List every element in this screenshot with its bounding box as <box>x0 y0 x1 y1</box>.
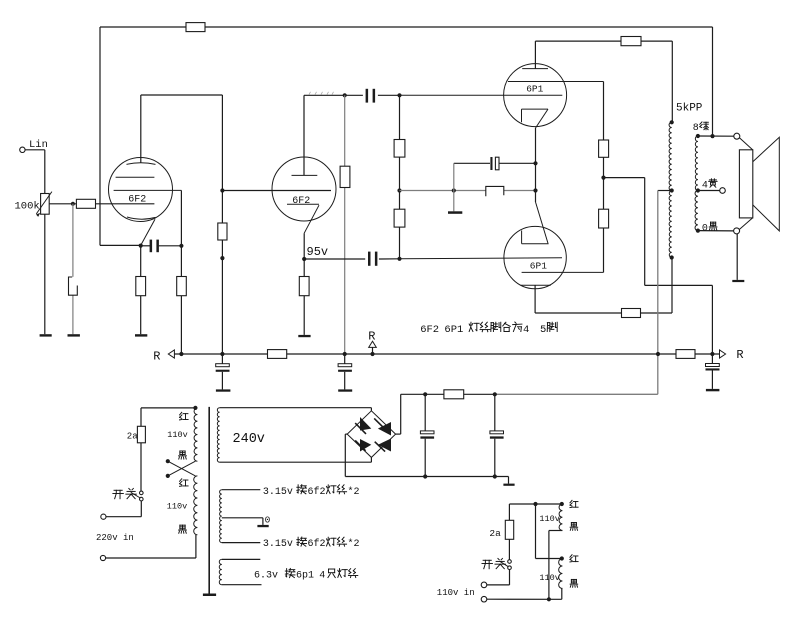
net arrow R left <box>168 350 174 358</box>
node grid junction <box>71 202 75 206</box>
svg-text:6F2: 6F2 <box>292 196 310 207</box>
wire 110 top node <box>509 503 561 505</box>
node bus R-up <box>370 352 374 356</box>
node cathode cap <box>533 161 537 165</box>
winding 110v lower <box>559 559 563 589</box>
svg-text:6f2: 6f2 <box>308 538 326 550</box>
label 4 yellow <box>702 179 717 192</box>
node V2 cathode out <box>302 257 306 261</box>
ground PSU <box>503 484 514 486</box>
label filament note <box>420 322 557 336</box>
wire red-red tie <box>536 504 562 559</box>
fuse 2a right <box>505 520 513 539</box>
ground pot <box>40 334 52 336</box>
OPT secondary winding <box>695 136 698 231</box>
crossover X <box>166 459 196 478</box>
svg-text:Lin: Lin <box>29 139 48 151</box>
label 8 green <box>693 122 709 134</box>
resistor grid shunt <box>69 277 78 295</box>
wire 8ohm tap <box>698 135 734 137</box>
switch contacts <box>140 491 144 501</box>
wire bridge DC minus <box>345 434 347 476</box>
label 95v <box>307 245 329 259</box>
terminal 220v neutral <box>100 555 105 560</box>
label 110v p2 <box>167 502 187 512</box>
label 3.15v upper <box>263 485 360 498</box>
node bus fb-chain <box>179 352 183 356</box>
wire 3.15 bottom lead <box>222 542 260 544</box>
node PT primary top <box>193 406 197 410</box>
svg-text:4: 4 <box>523 324 529 336</box>
wire switch2 down <box>487 570 510 585</box>
svg-text:110v: 110v <box>167 502 187 512</box>
node V1 plate / V2 grid <box>220 188 224 192</box>
winding 110v upper <box>559 504 562 531</box>
resistor R bus right <box>676 350 695 359</box>
svg-text:95v: 95v <box>307 245 329 259</box>
label red 2 <box>180 479 189 487</box>
V2 cathode slant <box>304 205 319 233</box>
resistor cathode bias <box>486 186 504 196</box>
label 110v p1 <box>167 430 187 440</box>
svg-text:6.3v: 6.3v <box>254 570 278 581</box>
resistor screen upper <box>599 140 609 157</box>
wire 240v top lead <box>220 407 372 409</box>
label 5kPP <box>676 102 703 114</box>
wire feedback to cathode <box>100 244 181 246</box>
label red 1 <box>180 412 189 420</box>
wire V1 cathode resistor drop <box>140 246 142 334</box>
V3 screen line <box>508 81 604 83</box>
node bus V2 chain <box>343 352 347 356</box>
wire 3.15 top lead <box>222 489 260 491</box>
wire 110v bottom line <box>487 598 562 600</box>
capacitor coupling upper <box>366 89 376 103</box>
svg-text:2a: 2a <box>127 431 138 441</box>
terminal 0ohm <box>734 228 740 234</box>
node V2 plate <box>343 93 347 97</box>
wire 3.15 center tap <box>222 518 263 525</box>
label Lin <box>29 139 48 151</box>
label black 2 <box>179 525 187 533</box>
PT primary upper <box>194 408 197 461</box>
wire OPT CT stub <box>658 190 672 192</box>
tube V1 6F2 envelope <box>109 158 173 222</box>
terminal 110v hot <box>481 582 487 588</box>
V1 cathode dish <box>127 217 156 219</box>
label V1 6F2 <box>128 195 146 206</box>
wire 6.3 top lead <box>222 558 260 560</box>
wire switch to terminal <box>106 501 141 517</box>
erase marks <box>309 92 334 95</box>
svg-text:6f2: 6f2 <box>308 486 326 498</box>
svg-text:6P1: 6P1 <box>526 84 543 95</box>
net arrow R up <box>369 341 377 354</box>
svg-text:6P1: 6P1 <box>530 261 547 272</box>
label black u <box>570 523 578 531</box>
ground V2 cathode <box>298 335 310 337</box>
PT 6.3v winding <box>219 559 222 584</box>
node bus V1 chain <box>220 352 224 356</box>
label red u <box>570 500 578 507</box>
resistor lower plate <box>622 309 641 318</box>
svg-text:*2: *2 <box>348 538 360 550</box>
net arrow R right <box>720 350 726 358</box>
wire V1 plate load to bus <box>221 240 223 354</box>
node 0V cap2 <box>493 474 497 478</box>
V1 top electrode <box>127 163 156 165</box>
wire bridge DC plus <box>396 394 401 434</box>
node feedback pickup <box>710 134 714 138</box>
node OPT primary CT <box>670 188 674 192</box>
PT primary lower <box>194 476 198 535</box>
node B+ cap2 <box>493 392 497 396</box>
transformer core <box>208 407 210 594</box>
svg-text:5kPP: 5kPP <box>676 102 703 114</box>
wire mains top lead <box>141 408 195 426</box>
svg-text:110v in: 110v in <box>437 588 475 598</box>
resistor R bus left <box>268 350 287 359</box>
wire feedback right drop <box>712 27 714 136</box>
node OPT sec 4ohm <box>696 188 700 192</box>
node OPT primary bottom <box>670 255 674 259</box>
terminal 4ohm <box>720 188 726 194</box>
wire V1 plate stem <box>140 95 142 163</box>
node OPT sec top <box>696 134 700 138</box>
resistor divider upper <box>394 140 405 158</box>
svg-text:6P1: 6P1 <box>444 324 463 336</box>
V3 grid line <box>400 94 563 96</box>
ground filament CT <box>257 525 268 527</box>
ground V1 cathode <box>135 334 147 336</box>
wire common cathode <box>535 128 537 202</box>
tube V2 6F2 envelope <box>272 157 336 221</box>
wire 0V line <box>345 477 508 484</box>
label 2a right <box>489 528 501 539</box>
svg-text:6F2: 6F2 <box>128 195 146 206</box>
wire speaker bottom link <box>739 218 752 230</box>
PT 240v winding <box>217 408 219 463</box>
wire V1 mid drop <box>180 190 182 354</box>
label 110v u <box>539 514 559 524</box>
wire 110 lower black <box>561 589 564 600</box>
svg-text:8: 8 <box>693 123 699 134</box>
svg-text:4: 4 <box>319 570 325 581</box>
label 100k <box>15 201 40 213</box>
wire speaker top link <box>739 138 752 150</box>
node bus B+ <box>656 352 660 356</box>
svg-text:R: R <box>153 349 160 363</box>
wire V2 plate stem <box>303 95 305 175</box>
node screen mid <box>601 176 605 180</box>
capacitor coupling lower <box>368 252 377 266</box>
svg-text:110v: 110v <box>167 430 187 440</box>
switch2 lever <box>500 561 509 567</box>
ground grid shunt <box>68 334 80 336</box>
ground bus cap B <box>338 389 352 391</box>
wire R bus <box>174 353 719 355</box>
label black 1 <box>179 451 187 459</box>
tube V4 6P1 envelope <box>504 226 566 288</box>
terminal 110v neutral <box>481 596 487 602</box>
V2 cathode bar <box>287 203 319 205</box>
label V3 6P1 <box>526 84 543 95</box>
V3 cathode <box>522 109 549 128</box>
potentiometer 100k <box>36 192 52 217</box>
terminal 220v hot <box>101 514 106 519</box>
wire 220v neutral <box>106 535 196 558</box>
node 110 black tie <box>547 597 551 601</box>
label black l <box>570 579 578 587</box>
wire 240v bottom lead <box>220 461 372 463</box>
svg-text:0: 0 <box>702 224 708 235</box>
resistor V2 plate load <box>340 166 350 187</box>
wire top feedback bus <box>100 26 713 28</box>
wire 4ohm tap <box>698 190 720 192</box>
node V1 plate chain dot <box>220 256 224 260</box>
resistor feedback chain <box>177 277 187 296</box>
label V2 6F2 <box>292 196 310 207</box>
svg-text:6p1: 6p1 <box>296 570 314 581</box>
wire fuse to switch <box>140 443 142 491</box>
node OPT primary top <box>670 120 674 124</box>
label switch left <box>113 488 136 498</box>
svg-text:*2: *2 <box>348 486 360 498</box>
V4 screen line <box>522 271 604 273</box>
V4 plate bar <box>521 285 551 313</box>
wire V2 plate route <box>304 94 400 96</box>
wire cathode net mid <box>400 190 536 192</box>
V3 plate bar <box>522 41 548 69</box>
ground R node <box>706 389 720 391</box>
label R left <box>153 349 160 363</box>
label 110v l <box>539 573 559 583</box>
tube V3 6P1 envelope <box>504 64 567 127</box>
wire speaker ground stem <box>736 234 738 280</box>
label V4 6P1 <box>530 261 547 272</box>
capacitor V1 cathode <box>150 240 159 253</box>
wire lower coupling <box>304 258 399 260</box>
node lower divider bottom <box>397 257 401 261</box>
V4 grid line <box>400 258 563 259</box>
bridge diamond <box>347 411 395 458</box>
resistor V1 plate load <box>218 223 227 240</box>
wire lower 6P1 plate to OPT <box>535 312 672 314</box>
wire grid line <box>49 203 154 205</box>
svg-text:6F2: 6F2 <box>420 324 439 336</box>
ground speaker <box>732 280 744 282</box>
node divider mid <box>397 188 401 192</box>
speaker horn <box>753 137 780 231</box>
label 3.15v lower <box>263 537 360 550</box>
capacitor R node <box>706 354 720 389</box>
wire V2 cathode resistor <box>303 259 305 335</box>
wire V1 plate top route <box>141 95 223 223</box>
wire B+ line <box>401 393 658 395</box>
resistor grid series <box>76 199 95 208</box>
svg-text:240v: 240v <box>233 432 265 447</box>
label 110v in <box>437 588 475 598</box>
wire bridge AC bottom <box>370 457 372 462</box>
svg-text:110v: 110v <box>539 573 559 583</box>
wire input <box>25 150 45 194</box>
wire divider chain <box>399 95 401 258</box>
wire bridge AC top <box>370 408 372 411</box>
OPT primary winding <box>669 122 672 257</box>
wire V2 cathode drop <box>303 233 305 259</box>
wire cathode net top <box>454 162 536 164</box>
diode D2 <box>374 418 391 435</box>
wire OPT primary bottom drop <box>671 258 673 314</box>
resistor V1 cathode <box>136 277 146 296</box>
wire fuse2 to switch <box>508 539 510 559</box>
node 110 red upper <box>560 502 564 506</box>
wire 110 fuse branch <box>508 504 510 520</box>
label 0 black <box>702 222 717 234</box>
wire V2 plate load chain <box>344 95 346 354</box>
label 2a left <box>127 431 138 441</box>
svg-text:3.15v: 3.15v <box>263 539 293 550</box>
V1 mid electrode line <box>114 189 182 191</box>
ground bus cap A <box>216 389 231 391</box>
fuse 2a left <box>137 426 145 443</box>
PT filament winding <box>220 490 222 543</box>
node B+ cap1 <box>423 392 427 396</box>
resistor V2 cathode <box>299 277 309 296</box>
label 0 tap <box>265 515 271 526</box>
diode D1 <box>355 417 371 434</box>
node OPT sec 0ohm <box>696 229 700 233</box>
svg-text:220v in: 220v in <box>96 533 134 543</box>
V1 plate line <box>116 176 155 178</box>
node V1 cathode <box>139 244 143 248</box>
switch lever <box>131 492 141 498</box>
wire 6.3 bottom lead <box>222 584 262 586</box>
svg-text:0: 0 <box>265 515 271 526</box>
wire 110 upper black <box>549 531 563 600</box>
label 220v in <box>96 533 134 543</box>
svg-text:2a: 2a <box>489 528 501 539</box>
resistor divider lower <box>394 209 405 227</box>
resistor upper plate <box>621 37 641 46</box>
terminal Lin input <box>20 147 25 152</box>
label switch right <box>482 558 505 568</box>
node 110 red lower <box>560 556 564 560</box>
label red l <box>570 555 578 562</box>
label R right <box>736 348 743 362</box>
wire cathode net ground stem <box>453 163 455 211</box>
resistor top feedback <box>186 23 205 32</box>
node bus R-node <box>710 352 714 356</box>
V4 cathode <box>522 202 549 244</box>
node 0V cap1 <box>423 474 427 478</box>
node cathode net left <box>452 188 456 192</box>
svg-text:100k: 100k <box>15 201 40 213</box>
node upper divider top <box>397 93 401 97</box>
diode D3 <box>355 439 371 452</box>
svg-text:R: R <box>736 348 743 362</box>
wire feedback left drop <box>99 27 101 245</box>
V2 plate bar <box>292 174 318 176</box>
resistor B+ filter <box>444 390 464 399</box>
wire grid shunt drop <box>72 204 74 334</box>
terminal 8ohm <box>734 133 740 139</box>
label R up <box>368 329 375 343</box>
node 110 red tie <box>533 502 537 506</box>
capacitor PSU filter 1 <box>420 394 434 476</box>
switch2 contacts <box>508 560 512 570</box>
diode D4 <box>375 439 391 452</box>
label 6.3v <box>254 568 358 581</box>
node feedback chain <box>179 244 183 248</box>
capacitor bus B <box>338 354 352 389</box>
svg-text:R: R <box>368 329 375 343</box>
capacitor cathode bypass <box>490 157 499 170</box>
V1 cathode lead slant <box>141 219 155 245</box>
wire V2 grid line <box>222 190 331 192</box>
wire B+ riser <box>657 191 659 395</box>
node cathode res <box>533 188 537 192</box>
label 240v <box>233 432 265 447</box>
capacitor PSU filter 2 <box>490 394 504 476</box>
wire OPT primary top drop <box>671 41 673 122</box>
wire pot to ground <box>44 214 46 334</box>
wire upper 6P1 plate to OPT <box>535 40 672 42</box>
wire screen chain <box>603 82 605 273</box>
core bottom bar <box>203 594 216 597</box>
capacitor bus A <box>216 354 230 389</box>
svg-text:110v: 110v <box>539 514 559 524</box>
svg-text:3.15v: 3.15v <box>263 487 293 498</box>
wire screen mid to R node <box>604 178 713 354</box>
svg-text:5: 5 <box>540 324 546 336</box>
wire 0ohm tap <box>698 230 734 232</box>
resistor screen lower <box>599 209 609 228</box>
ground cathode net <box>448 211 462 214</box>
speaker body <box>739 150 752 218</box>
